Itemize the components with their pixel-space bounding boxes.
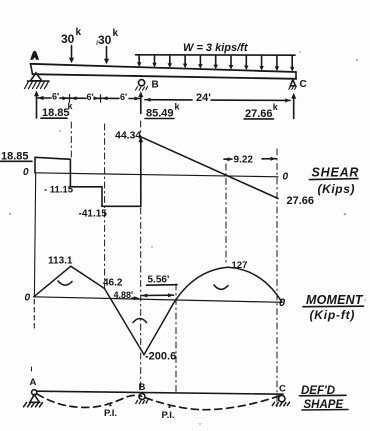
svg-text:MOMENT: MOMENT — [306, 293, 364, 307]
load P2 label 30k — [98, 28, 119, 47]
svg-text:0: 0 — [25, 292, 31, 303]
shear title — [312, 166, 360, 197]
shear start value 18.85 — [1, 151, 29, 163]
svg-text:-200.6: -200.6 — [145, 351, 176, 363]
projection line C — [276, 149, 278, 408]
svg-text:24': 24' — [196, 92, 211, 104]
svg-text:A: A — [31, 51, 38, 62]
svg-text:B: B — [139, 382, 146, 393]
shear value 44.34 — [115, 130, 141, 142]
reaction RB label 85.49k — [146, 102, 181, 120]
svg-text:18.85: 18.85 — [42, 107, 70, 119]
svg-text:6': 6' — [120, 92, 127, 102]
shear curve — [35, 140, 141, 206]
deflected shape beam line — [37, 391, 284, 394]
svg-text:P.I.: P.I. — [104, 408, 117, 419]
axis projection line A shear-to-moment — [34, 173, 35, 297]
svg-text:-41.15: -41.15 — [79, 209, 108, 220]
svg-text:44.34: 44.34 — [115, 130, 141, 142]
moment curve — [34, 266, 282, 355]
beam bottom chord — [33, 74, 297, 79]
shear end value 0 — [283, 172, 289, 183]
svg-text:k: k — [113, 28, 119, 39]
moment value 46.2 — [103, 278, 123, 289]
moment dim 4.88' with arrow — [114, 290, 134, 300]
deflected support B roller — [139, 394, 145, 400]
svg-text:- 11.15: - 11.15 — [44, 185, 74, 196]
svg-text:0: 0 — [279, 297, 286, 309]
reaction RC arrow — [293, 97, 295, 119]
reaction RA arrow — [36, 94, 38, 118]
projection line shear zero / moment max — [225, 164, 227, 264]
svg-text:SHEAR: SHEAR — [312, 166, 360, 180]
moment title — [306, 293, 364, 322]
projection line B — [140, 121, 142, 390]
svg-text:6': 6' — [52, 92, 59, 102]
svg-text:0: 0 — [23, 167, 29, 178]
deflected support A hatching — [24, 403, 43, 407]
shear value -41.15 — [79, 209, 108, 220]
svg-text:C: C — [300, 79, 307, 90]
beam top chord — [31, 64, 297, 72]
P.I. marker 1 — [109, 403, 112, 406]
svg-text:W = 3 kips/ft: W = 3 kips/ft — [183, 42, 249, 54]
beam left end cap — [31, 64, 33, 74]
shear axis origin 0 — [23, 167, 29, 178]
svg-text:9.22: 9.22 — [234, 155, 254, 166]
svg-text:46.2: 46.2 — [103, 278, 123, 289]
projection line moment zero right of B — [175, 284, 177, 393]
svg-text:A: A — [30, 377, 37, 388]
svg-text:113.1: 113.1 — [48, 256, 73, 267]
distributed load label W = 3 kips/ft — [183, 42, 249, 54]
svg-text:(Kips): (Kips) — [318, 182, 356, 196]
deflected support C hatching — [272, 402, 289, 406]
shear end value 27.66 — [287, 195, 315, 207]
dimension line B-C 24' — [145, 99, 290, 102]
moment baseline — [34, 297, 282, 303]
roller support C — [290, 80, 295, 86]
moment end value 0 — [279, 297, 286, 309]
load P2 arrow — [106, 47, 108, 62]
shear dimension 9.22 — [224, 158, 276, 161]
P.I. marker 2 — [168, 405, 171, 408]
deflected curve span AB — [37, 394, 142, 407]
roller support B — [139, 80, 145, 86]
distributed load arrows — [138, 56, 140, 64]
projection line load1 — [70, 122, 72, 157]
load P1 label 30k — [61, 27, 82, 46]
projection line load2 — [104, 124, 106, 288]
svg-text:(Kip-ft): (Kip-ft) — [310, 308, 356, 322]
moment value 113.1 — [48, 256, 73, 267]
moment axis origin 0 — [25, 292, 31, 303]
svg-text:30: 30 — [98, 33, 112, 47]
deflected shape node C — [279, 384, 286, 395]
deflected shape node B — [139, 382, 146, 393]
shear value -11.15 — [44, 185, 74, 196]
svg-text:C: C — [279, 384, 286, 395]
deflected shape node A — [30, 377, 37, 388]
projection stub above A deflected — [31, 367, 33, 374]
moment dim 5.56' — [148, 275, 170, 286]
curvature smile mark 2 — [214, 285, 228, 289]
svg-text:k: k — [76, 27, 82, 38]
support A hatching — [25, 81, 49, 88]
svg-text:0: 0 — [283, 172, 289, 183]
beam right end cap — [295, 72, 297, 79]
deflected shape title — [301, 385, 343, 411]
svg-text:P.I.: P.I. — [162, 410, 175, 421]
svg-text:27.66: 27.66 — [287, 195, 315, 207]
svg-text:5.56': 5.56' — [148, 275, 170, 286]
load P1 arrow — [71, 46, 73, 61]
svg-text:127: 127 — [232, 260, 248, 271]
moment value 127 — [232, 260, 248, 271]
pin support A — [31, 73, 42, 81]
shear baseline — [35, 173, 278, 177]
reaction RA label 18.85k — [42, 101, 74, 119]
deflected curve span BC — [146, 395, 281, 409]
deflected support C roller — [279, 396, 285, 402]
svg-text:30: 30 — [61, 32, 75, 46]
svg-text:6': 6' — [87, 92, 94, 102]
curvature frown mark — [133, 319, 147, 323]
distributed load top bar — [136, 54, 296, 56]
curvature smile mark 1 — [58, 281, 72, 285]
moment value -200.6 — [145, 351, 176, 363]
node C label — [300, 79, 307, 90]
svg-text:4.88': 4.88' — [114, 290, 134, 300]
node B label — [152, 80, 159, 91]
reaction RC label 27.66k — [245, 102, 279, 120]
reaction RB arrow — [140, 95, 142, 114]
svg-text:B: B — [152, 80, 159, 91]
deflected support A pin — [32, 390, 37, 395]
dimension line A-B 6' 6' 6' — [38, 97, 141, 100]
